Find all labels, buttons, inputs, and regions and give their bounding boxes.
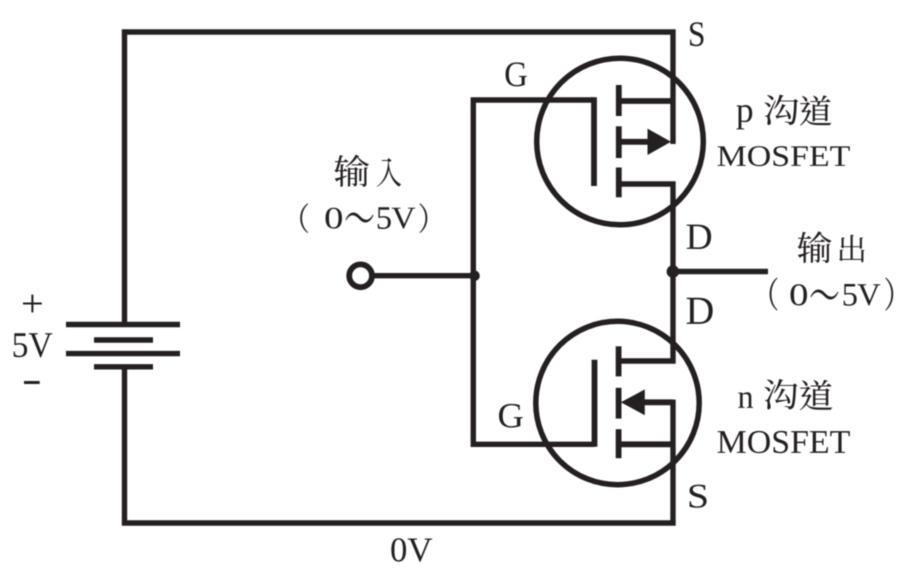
label: battery value 5V [14, 333, 53, 357]
pin label S (Q1 source, top) [690, 22, 704, 46]
label: input range （0～5V） [300, 203, 427, 233]
terminal: input open circle [349, 264, 372, 287]
label: battery + polarity [23, 295, 42, 313]
label: MOSFET (n-channel) [718, 431, 850, 453]
p-channel MOSFET Q1: envelope circle [537, 58, 704, 225]
wire: n-MOSFET source horizontal (channel to right vertical) [619, 441, 673, 447]
Q1 gate bar [591, 97, 597, 186]
wire: left rail + top rail from battery positive to p-MOSFET source/body vertical [125, 32, 674, 325]
node: output junction dot [667, 265, 680, 278]
node: input junction dot [469, 271, 480, 282]
n-channel MOSFET Q2: envelope circle [536, 321, 699, 484]
wire: output tap line [673, 269, 768, 274]
Q1 body lead with outward arrow [619, 129, 671, 155]
label: MOSFET (p-channel) [718, 146, 850, 166]
Q2 channel dashes [616, 346, 622, 458]
label: ground reference 0V [391, 538, 432, 562]
label: battery - polarity [24, 381, 40, 384]
pin label D (Q2 drain) [687, 298, 713, 324]
Q2 gate bar [592, 360, 598, 447]
Q2 body lead with inward arrow [621, 389, 673, 415]
wire: input horizontal from terminal to gate bus [374, 273, 473, 278]
label: output range （0～5V） [770, 278, 894, 311]
pin label D (Q1 drain) [687, 225, 711, 249]
label: p 沟道 [736, 95, 831, 130]
pin label G (Q1 gate) [506, 62, 527, 86]
pin label G (Q2 gate) [499, 404, 523, 428]
wire: p-MOSFET source horizontal (channel to right vertical) [619, 98, 673, 104]
wire: input gate bus (p gate lead, vertical, n gate lead) [473, 100, 594, 444]
pin label S (Q2 source, bottom) [689, 485, 706, 508]
label: output 输出 [797, 231, 864, 263]
label: input 输入 [334, 155, 401, 187]
label: n 沟道 [738, 379, 832, 410]
battery B1 5V [66, 325, 180, 367]
Q1 channel dashes [616, 85, 622, 197]
wire: n-MOSFET body/source corner, down right side, bottom rail, up to battery negative [125, 367, 674, 523]
wire: p-MOSFET drain down through output node to n-MOSFET drain [619, 184, 673, 361]
